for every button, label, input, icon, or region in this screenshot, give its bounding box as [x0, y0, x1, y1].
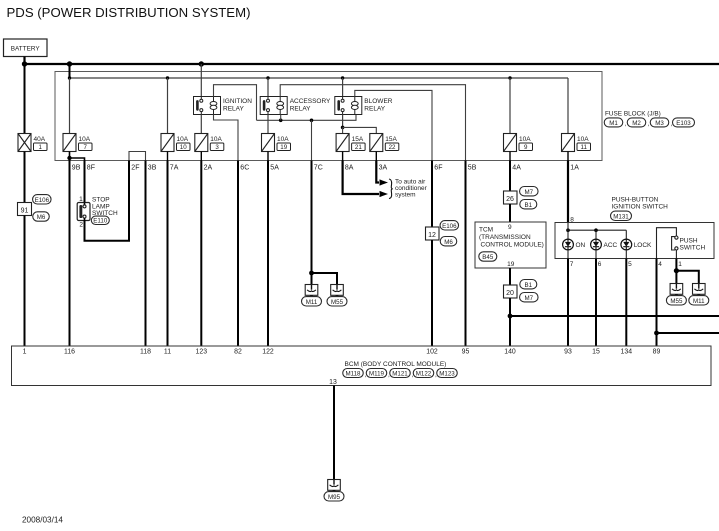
connector M119 — [366, 369, 387, 378]
wire battery bus — [24, 63, 719, 65]
svg-text:6F: 6F — [434, 165, 442, 172]
connector E106 mid — [440, 221, 459, 230]
svg-text:9: 9 — [508, 224, 512, 231]
wire internal bus to fuse 10 — [167, 78, 169, 134]
wire battery stub — [23, 57, 25, 65]
svg-text:8F: 8F — [87, 165, 95, 172]
wire 6F to connector 12 — [431, 161, 433, 228]
stop lamp switch E110 — [77, 203, 90, 221]
ground M95 — [328, 480, 341, 491]
svg-text:140: 140 — [504, 349, 516, 356]
svg-text:15: 15 — [592, 349, 600, 356]
accessory relay — [260, 97, 287, 115]
wire stop lamp switch to 2F — [85, 161, 130, 241]
connector M122 — [413, 369, 434, 378]
junction internal bus at blower relay — [341, 76, 344, 79]
svg-text:2: 2 — [79, 222, 83, 229]
svg-text:PUSH: PUSH — [680, 238, 698, 245]
wire to ground M55 right — [675, 271, 677, 284]
svg-text:12: 12 — [428, 232, 436, 239]
svg-text:IGNITION SWITCH: IGNITION SWITCH — [612, 203, 669, 210]
svg-text:4A: 4A — [512, 165, 521, 172]
svg-text:10A: 10A — [577, 136, 589, 143]
junction 140 branch — [508, 314, 513, 319]
fuse 11 10A — [562, 134, 575, 152]
wire ignition switch internal bus — [568, 229, 626, 231]
svg-text:SWITCH: SWITCH — [680, 245, 706, 252]
TCM B45 transmission control module — [475, 222, 546, 268]
svg-text:ON: ON — [576, 242, 586, 249]
wire accessory relay contact to fuse 19 — [267, 115, 269, 134]
wire fuse 9 output — [509, 152, 511, 161]
svg-text:1: 1 — [678, 261, 682, 268]
wire 1A to ignition switch pin 8 — [567, 161, 569, 223]
svg-text:(TRANSMISSION: (TRANSMISSION — [479, 234, 531, 241]
ground M11 right — [693, 284, 706, 295]
wire connector 20 to BCM pin 140 — [509, 298, 511, 346]
wire accessory relay coil top to 5B — [280, 85, 465, 161]
svg-text:89: 89 — [653, 349, 661, 356]
wire pin 1 to ground junction — [675, 259, 677, 271]
svg-text:19: 19 — [280, 144, 287, 151]
svg-text:10: 10 — [180, 144, 187, 151]
connector B1 upper — [520, 200, 537, 209]
svg-text:M1: M1 — [609, 120, 618, 127]
svg-text:system: system — [395, 191, 416, 198]
svg-text:15A: 15A — [385, 136, 397, 143]
svg-text:26: 26 — [506, 196, 514, 203]
svg-text:20: 20 — [506, 290, 514, 297]
junction ON diode — [566, 228, 570, 232]
wire fuse 3 output — [200, 152, 202, 161]
svg-text:M131: M131 — [613, 213, 629, 220]
junction internal bus at fuse 7 — [68, 76, 71, 79]
svg-text:9B: 9B — [72, 165, 81, 172]
wire 9B to BCM pin 116 — [69, 158, 71, 346]
svg-text:E106: E106 — [442, 223, 457, 230]
wire ignition relay coil to 6C — [214, 115, 239, 161]
svg-text:2008/03/14: 2008/03/14 — [22, 515, 63, 524]
wire 4A to connector 26 — [509, 161, 511, 192]
svg-text:6: 6 — [598, 261, 602, 268]
wire stub ON diode — [567, 223, 569, 240]
svg-text:5: 5 — [628, 261, 632, 268]
svg-text:CONTROL MODULE): CONTROL MODULE) — [481, 241, 544, 248]
wire split to fuse 21 — [342, 127, 344, 133]
svg-text:22: 22 — [389, 144, 396, 151]
svg-text:B45: B45 — [482, 254, 494, 261]
connector M118 — [343, 369, 364, 378]
svg-text:10A: 10A — [277, 136, 289, 143]
ground M55 left — [331, 285, 344, 296]
svg-text:95: 95 — [462, 349, 470, 356]
svg-text:PUSH-BUTTON: PUSH-BUTTON — [612, 196, 659, 203]
svg-text:E110: E110 — [93, 218, 108, 225]
svg-text:M121: M121 — [392, 371, 408, 378]
svg-text:E106: E106 — [35, 197, 50, 204]
svg-text:,: , — [625, 121, 627, 128]
wire stub ACC diode — [595, 230, 597, 239]
svg-text:ACC: ACC — [604, 242, 618, 249]
wire connector 91 to BCM pin 1 — [24, 216, 26, 347]
junction 7C ground split — [309, 271, 314, 276]
wire pin 7 to BCM pin 93 — [567, 259, 569, 347]
svg-text:9: 9 — [524, 144, 528, 151]
wire 3A to arrow — [376, 161, 379, 183]
svg-text:93: 93 — [564, 349, 572, 356]
svg-text:7: 7 — [84, 144, 88, 151]
connector M123 — [437, 369, 458, 378]
push switch contacts — [675, 236, 678, 239]
svg-text:15A: 15A — [352, 136, 364, 143]
svg-text:M122: M122 — [416, 371, 432, 378]
wire fuse 11 output — [567, 152, 569, 161]
svg-text:3: 3 — [215, 144, 219, 151]
wire push switch loop — [657, 228, 677, 259]
wire fuse 21 output — [342, 152, 344, 161]
connector M2 — [627, 118, 646, 127]
wire jumper 2F to 3B inside J/B — [129, 152, 146, 161]
wire connector 26 to TCM pin 9 — [509, 204, 511, 222]
connector B1 lower — [520, 280, 537, 289]
wire 5A to BCM pin 122 — [267, 161, 269, 347]
svg-text:M118: M118 — [345, 371, 361, 378]
wire battery to fusible link — [24, 64, 26, 134]
svg-text:M6: M6 — [444, 239, 453, 246]
wire ignition relay coil top to ground chain — [214, 85, 257, 121]
connector M6 mid — [440, 237, 457, 246]
wire internal bus — [70, 77, 569, 79]
wire stub LOCK diode — [625, 230, 627, 239]
wire 8A to arrow — [343, 161, 379, 195]
svg-text:RELAY: RELAY — [290, 105, 311, 112]
wire push switch to pin 1 — [675, 250, 677, 259]
svg-text:118: 118 — [140, 349, 151, 356]
junction chain at 7C — [310, 119, 314, 123]
wire 7C below J/B — [311, 161, 313, 274]
svg-text:BCM (BODY CONTROL MODULE): BCM (BODY CONTROL MODULE) — [345, 361, 447, 368]
connector 91 — [18, 203, 32, 216]
ground M11 left — [305, 285, 318, 296]
connector M121 — [390, 369, 411, 378]
svg-text:RELAY: RELAY — [223, 105, 244, 112]
wire branch off-page right lower — [657, 332, 719, 334]
wire pin 4 to BCM pin 89 — [656, 259, 658, 347]
svg-text:10A: 10A — [210, 136, 222, 143]
junction internal bus at fuse 9 — [508, 76, 511, 79]
svg-text:2F: 2F — [131, 165, 139, 172]
wire TCM pin 19 to connector 20 — [509, 268, 511, 285]
svg-text:M7: M7 — [524, 295, 533, 302]
fuse 21 15A — [336, 134, 349, 152]
svg-text:M55: M55 — [331, 299, 344, 306]
brace to auto air conditioner system — [389, 179, 393, 199]
blower relay — [335, 97, 362, 115]
svg-text:BLOWER: BLOWER — [364, 98, 392, 105]
wire split to fuse 22 — [343, 127, 377, 133]
BCM body control module box — [12, 346, 712, 386]
svg-text:6C: 6C — [240, 165, 249, 172]
connector 20 — [504, 285, 518, 298]
diode ACC indicator — [591, 239, 602, 250]
svg-text:11: 11 — [164, 349, 171, 356]
svg-text:102: 102 — [426, 349, 438, 356]
svg-text:7A: 7A — [170, 165, 179, 172]
wire fusible link to connector 91 — [24, 152, 26, 203]
arrow 3A to auto air conditioner — [380, 179, 389, 185]
wire 8F to stop lamp switch — [84, 161, 86, 204]
wire J/B feed — [69, 64, 71, 78]
wire bus to ignition relay contact — [200, 64, 202, 97]
fuse 10 10A — [161, 134, 174, 152]
push-button ignition switch box — [555, 223, 714, 259]
svg-text:19: 19 — [507, 261, 515, 268]
svg-text:M95: M95 — [328, 494, 341, 501]
connector M6 left — [33, 212, 50, 221]
junction 89 branch — [654, 331, 659, 336]
svg-text:IGNITION: IGNITION — [223, 98, 252, 105]
connector E110 — [91, 216, 109, 224]
wire to ground M11 right — [676, 271, 698, 284]
svg-text:M2: M2 — [632, 120, 641, 127]
wire internal bus to accessory relay contact — [267, 78, 269, 97]
svg-text:1: 1 — [23, 349, 27, 356]
svg-text:M3: M3 — [655, 120, 664, 127]
junction push switch grounds — [674, 268, 679, 273]
svg-text:M6: M6 — [37, 214, 46, 221]
junction ACC diode — [594, 228, 598, 232]
junction battery — [22, 61, 27, 66]
connector E103 — [673, 118, 695, 127]
svg-text:M11: M11 — [306, 299, 318, 306]
wire to ground M55 left — [312, 273, 338, 285]
svg-text:91: 91 — [21, 207, 29, 214]
wire relay coil ground chain — [257, 115, 357, 121]
battery B+ — [4, 39, 48, 57]
svg-text:116: 116 — [64, 349, 75, 356]
wire ON diode to pin 7 — [567, 250, 569, 259]
connector M131 — [611, 211, 632, 220]
wire fuse 19 output — [267, 152, 269, 161]
svg-text:FUSE BLOCK (J/B): FUSE BLOCK (J/B) — [605, 111, 661, 118]
svg-text:ACCESSORY: ACCESSORY — [290, 98, 331, 105]
svg-text:M55: M55 — [670, 298, 683, 305]
svg-text:5A: 5A — [270, 165, 279, 172]
junction blower output split — [341, 126, 345, 130]
svg-text:10A: 10A — [519, 136, 531, 143]
fusible link 40A — [18, 134, 31, 152]
wire blower relay contact to fuses — [342, 115, 344, 128]
svg-text:8A: 8A — [345, 165, 354, 172]
wire ignition relay contact to fuse 3 — [200, 115, 202, 134]
svg-text:123: 123 — [196, 349, 208, 356]
svg-text:40A: 40A — [34, 136, 46, 143]
svg-text:M7: M7 — [524, 189, 533, 196]
connector M3 — [650, 118, 669, 127]
connector 12 — [426, 227, 440, 240]
wire 6C to BCM pin 82 — [237, 161, 239, 347]
junction bus to J/B feed — [67, 61, 72, 66]
wire 3B to BCM pin 118 — [145, 161, 147, 347]
wire internal bus to fuse 11 — [567, 78, 569, 134]
fuse 19 10A — [262, 134, 275, 152]
fuse block J/B box — [55, 72, 602, 161]
svg-text:,: , — [648, 121, 650, 128]
wire fuse 7 output — [69, 152, 71, 159]
svg-text:M119: M119 — [369, 371, 385, 378]
fuse 7 10A — [63, 134, 76, 152]
svg-text:M123: M123 — [439, 371, 455, 378]
svg-text:3B: 3B — [148, 165, 157, 172]
svg-text:M11: M11 — [693, 298, 705, 305]
fuse 22 15A — [370, 134, 383, 152]
fuse 9 10A — [504, 134, 517, 152]
svg-text:13: 13 — [329, 379, 337, 386]
wire fuse 10 output — [167, 152, 169, 161]
wire 7C from chain to grounds — [311, 120, 313, 160]
svg-text:122: 122 — [262, 349, 274, 356]
junction bus to ignition relay — [199, 61, 204, 66]
svg-text:7: 7 — [570, 261, 574, 268]
svg-text:PDS (POWER DISTRIBUTION SYSTEM: PDS (POWER DISTRIBUTION SYSTEM) — [7, 5, 251, 20]
svg-text:5B: 5B — [468, 165, 477, 172]
wire internal bus to fuse 9 — [509, 78, 511, 134]
junction chain at accessory coil — [279, 119, 283, 123]
fuse 3 10A — [195, 134, 208, 152]
svg-text:B1: B1 — [525, 202, 533, 209]
svg-text:10A: 10A — [177, 136, 189, 143]
svg-text:RELAY: RELAY — [364, 105, 385, 112]
junction internal bus at fuse 10 — [166, 76, 169, 79]
svg-text:11: 11 — [581, 144, 588, 151]
ignition relay — [194, 97, 221, 115]
wire internal bus to blower relay contact — [342, 78, 344, 97]
arrow 8A to auto air conditioner — [380, 191, 389, 197]
wire connector 12 to BCM pin 102 — [431, 240, 433, 346]
svg-text:TCM: TCM — [479, 226, 493, 233]
svg-text:10A: 10A — [79, 136, 91, 143]
wire pin 6 to BCM pin 15 — [595, 259, 597, 347]
svg-text:1A: 1A — [570, 165, 579, 172]
wire to ground M11 left — [311, 273, 313, 285]
junction 9B/8F split — [67, 156, 71, 160]
diode ON indicator — [563, 239, 574, 250]
connector M1 — [604, 118, 623, 127]
wire LOCK diode to pin 5 — [625, 250, 627, 259]
svg-text:LOCK: LOCK — [634, 242, 652, 249]
junction internal bus at accessory relay — [266, 76, 269, 79]
svg-text:E103: E103 — [676, 120, 691, 127]
diode LOCK indicator — [621, 239, 632, 250]
svg-text:1: 1 — [39, 144, 43, 151]
wire 7A to BCM pin 11 — [167, 161, 169, 347]
connector M7 upper — [520, 187, 539, 196]
wire pin 5 to BCM pin 134 — [625, 259, 627, 347]
svg-text:BATTERY: BATTERY — [11, 46, 41, 53]
svg-text:2A: 2A — [204, 165, 213, 172]
wire split to 8F — [70, 158, 85, 161]
svg-text:7C: 7C — [314, 165, 323, 172]
wire internal bus to fuse 7 — [69, 78, 71, 134]
connector M7 lower — [520, 293, 539, 302]
wire 5B to BCM pin 95 — [465, 161, 467, 347]
svg-text:134: 134 — [621, 349, 633, 356]
svg-text:3A: 3A — [379, 165, 388, 172]
connector E106 left — [33, 195, 52, 204]
ground M55 right — [670, 284, 683, 295]
wire accessory coil bottom to chain — [280, 115, 282, 121]
wire ACC diode to pin 6 — [595, 250, 597, 259]
svg-text:4: 4 — [658, 261, 662, 268]
connector 26 — [504, 191, 518, 204]
wire fuse 22 output — [375, 152, 377, 161]
wire blower relay coil top to 6F — [355, 90, 432, 160]
wire BCM pin 13 to ground M95 — [333, 386, 335, 480]
wire branch off-page right upper — [510, 315, 719, 317]
svg-text:B1: B1 — [525, 282, 533, 289]
svg-text:82: 82 — [234, 349, 242, 356]
svg-text:21: 21 — [355, 144, 362, 151]
wire 2A to BCM pin 123 — [200, 161, 202, 347]
